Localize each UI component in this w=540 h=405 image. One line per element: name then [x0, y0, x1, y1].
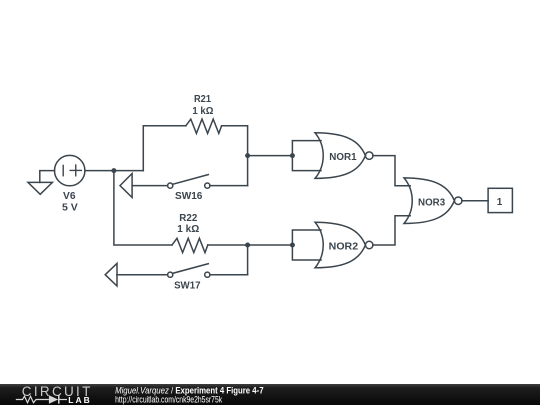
- ground: [28, 171, 55, 195]
- wire node to NOR1 input: [248, 155, 293, 157]
- wire junction down to R22: [114, 171, 172, 245]
- wire SW17 up to R22 node: [247, 245, 249, 275]
- node main rail: [111, 168, 116, 173]
- switch SW17: [117, 274, 168, 276]
- footer text: [115, 385, 264, 405]
- svg-text:NOR2: NOR2: [329, 241, 359, 252]
- wire up to R21: [143, 126, 186, 171]
- NOR gate NOR2: [315, 222, 373, 268]
- node NOR2 input: [290, 243, 295, 248]
- svg-text:1 kΩ: 1 kΩ: [192, 106, 213, 117]
- svg-text:V6: V6: [63, 191, 76, 202]
- wire R21 right: [222, 126, 248, 186]
- NOR gate NOR1: [315, 133, 373, 179]
- svg-text:5 V: 5 V: [62, 203, 78, 214]
- output box node 1: [488, 188, 512, 212]
- svg-text:R22: R22: [179, 213, 197, 224]
- svg-text:R21: R21: [194, 94, 211, 105]
- resistor R21: [186, 119, 222, 133]
- svg-text:1: 1: [497, 197, 503, 208]
- NOR1 input tie: [292, 141, 321, 171]
- svg-text:NOR3: NOR3: [418, 197, 446, 208]
- switch SW16: [132, 185, 168, 187]
- wire R22 right to NOR2 input: [208, 244, 293, 246]
- node R21/SW16 right: [245, 153, 250, 158]
- svg-text:http://circuitlab.com/cnk9e2h5: http://circuitlab.com/cnk9e2h5sr75k: [115, 395, 222, 405]
- footer bar: [0, 384, 540, 405]
- svg-text:SW17: SW17: [174, 281, 201, 292]
- node NOR1 input: [290, 153, 295, 158]
- resistor R22: [172, 238, 208, 252]
- switch SW16 toggle triangle: [120, 174, 132, 198]
- NOR2 input tie: [292, 230, 321, 260]
- voltage source V6: [54, 155, 84, 185]
- svg-text:LAB: LAB: [68, 395, 91, 405]
- junction dots: [111, 153, 295, 247]
- footer logo CIRCUITLAB: [16, 384, 93, 405]
- wire V6 right to R21 corner: [85, 170, 143, 172]
- svg-text:SW16: SW16: [175, 191, 203, 202]
- node R22/SW17 right: [245, 243, 250, 248]
- svg-text:NOR1: NOR1: [329, 152, 357, 163]
- wire NOR1 out to NOR3 top input: [373, 156, 410, 186]
- wire NOR2 out to NOR3 bottom input: [373, 216, 410, 245]
- wire NOR3 out to output box: [462, 200, 488, 202]
- switch SW17 toggle triangle: [105, 263, 117, 286]
- NOR gate NOR3: [404, 178, 462, 224]
- svg-text:1 kΩ: 1 kΩ: [177, 224, 199, 235]
